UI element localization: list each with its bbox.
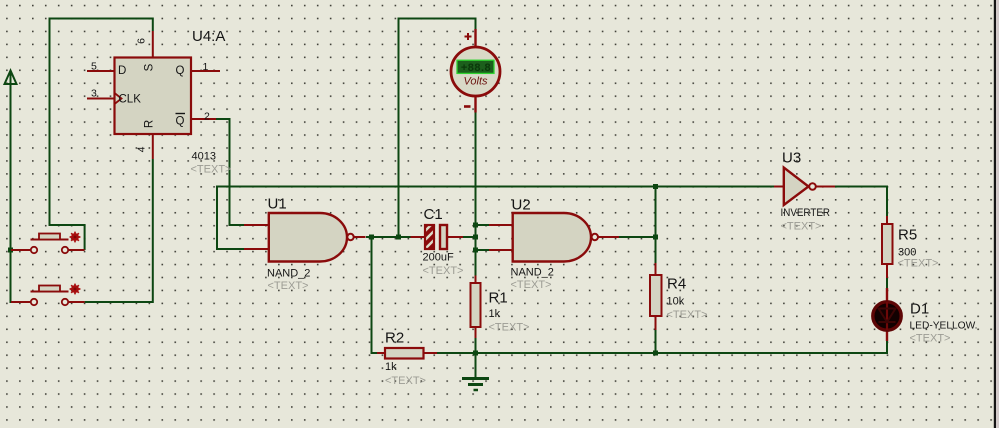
node: button1 left junction: [8, 248, 13, 253]
svg-text:3: 3: [91, 88, 97, 100]
svg-text:CLK: CLK: [119, 94, 142, 106]
pin 3 lead: [87, 98, 115, 100]
wire: S pin loop from U4 top to button1 right: [50, 19, 153, 251]
svg-text:6: 6: [136, 38, 148, 44]
svg-text:200uF: 200uF: [423, 252, 454, 264]
wire: C1 right to rail: [463, 236, 476, 238]
svg-text:LED-YELLOW.: LED-YELLOW.: [910, 320, 978, 332]
resistor R1: [471, 276, 530, 339]
svg-text:<TEXT>: <TEXT>: [781, 221, 822, 233]
wire: R5 to LED: [886, 278, 888, 288]
capacitor C1: [411, 206, 464, 277]
resistor R4: [650, 263, 707, 330]
resistor R2: [377, 329, 437, 387]
svg-text:R1: R1: [489, 290, 508, 307]
svg-text:U2: U2: [512, 197, 531, 214]
wire: voltmeter minus rail down: [475, 113, 477, 276]
pin 1 lead: [191, 70, 220, 72]
svg-text:1: 1: [203, 61, 209, 73]
wire: U1 output to C1: [366, 236, 412, 238]
voltmeter: [451, 29, 500, 113]
node: feedback junction: [653, 184, 658, 189]
svg-text:INVERTER: INVERTER: [781, 207, 831, 219]
svg-text:U4:A: U4:A: [192, 28, 225, 45]
svg-text:D: D: [118, 65, 126, 77]
canvas right border: [994, 0, 996, 428]
svg-text:10k: 10k: [667, 296, 685, 308]
svg-text:<TEXT>: <TEXT>: [898, 257, 939, 269]
node: U2 out junction: [653, 235, 658, 240]
svg-text:R5: R5: [898, 227, 917, 244]
clock triangle: [115, 93, 122, 104]
wire: U4 Q-bar to U1 input1: [216, 119, 244, 225]
button SW2: [11, 284, 85, 306]
node: rail c1: [473, 235, 478, 240]
svg-text:Q: Q: [176, 116, 185, 128]
node: U1 out voltmeter branch: [396, 235, 401, 240]
svg-text:<TEXT>: <TEXT>: [511, 279, 552, 291]
svg-text:5: 5: [91, 61, 97, 73]
node: rail u2in2: [473, 248, 478, 253]
svg-text:2: 2: [204, 111, 210, 123]
svg-text:<TEXT>: <TEXT>: [910, 333, 951, 345]
svg-text:4: 4: [136, 146, 148, 152]
svg-text:<TEXT>: <TEXT>: [489, 322, 530, 334]
svg-text:R2: R2: [385, 329, 404, 346]
resistor R5: [882, 216, 938, 278]
inverter U3: [774, 150, 835, 233]
wire: rail to U2 input2: [476, 249, 490, 251]
LED D1: [873, 288, 978, 345]
svg-text:+88.8: +88.8: [461, 62, 491, 74]
ground: [462, 353, 489, 390]
node: U1 out R2 branch: [369, 235, 374, 240]
wire: U3 output to R5: [835, 187, 887, 217]
svg-text:Volts: Volts: [463, 76, 488, 88]
wire: R2 branch from U1 output node: [372, 237, 378, 353]
svg-text:<TEXT>: <TEXT>: [423, 265, 464, 277]
flip-flop U4:A: [87, 28, 231, 176]
pin 2 lead: [191, 118, 216, 120]
svg-text:S: S: [144, 63, 156, 71]
svg-text:U3: U3: [782, 150, 801, 167]
node: rail u2in1: [473, 223, 478, 228]
wire: feedback net U2 out to U1 input2 and U3 input: [217, 187, 775, 250]
svg-text:<TEXT>: <TEXT>: [191, 164, 232, 176]
wire: voltmeter plus to U1 output node: [399, 19, 476, 238]
svg-text:NAND_2: NAND_2: [511, 267, 554, 279]
svg-text:<TEXT>: <TEXT>: [667, 309, 708, 321]
wire: left rail with arrow terminal: [11, 71, 15, 302]
svg-text:C1: C1: [424, 206, 443, 223]
svg-text:R4: R4: [667, 276, 686, 293]
wire: R1 bottom to ground node: [475, 338, 477, 353]
wire: bottom return net: [437, 341, 887, 353]
wire: button2 right to U4 pin4: [85, 159, 153, 302]
svg-text:<TEXT>: <TEXT>: [385, 375, 426, 387]
svg-text:NAND_2: NAND_2: [267, 268, 310, 280]
button SW1: [11, 232, 85, 254]
svg-text:<TEXT>: <TEXT>: [268, 280, 309, 292]
node: R4 bottom junction: [653, 351, 658, 356]
wire: rail to U2 input1: [476, 224, 490, 226]
node: ground junction: [473, 351, 478, 356]
pin 5 lead: [87, 70, 115, 72]
wire: U2 output to junction and R4: [619, 237, 656, 263]
pin 6 lead: [152, 31, 154, 58]
arrow terminal head: [5, 71, 17, 85]
svg-text:U1: U1: [268, 196, 287, 213]
wire: R4 bottom green: [655, 330, 657, 353]
svg-text:Q: Q: [176, 65, 185, 77]
NAND gate U2: [489, 197, 619, 292]
svg-text:D1: D1: [910, 301, 929, 318]
NAND gate U1: [244, 196, 366, 293]
svg-text:1k: 1k: [489, 308, 501, 320]
wire: branch feedback to U2 output node: [655, 187, 657, 238]
svg-text:4013: 4013: [192, 151, 216, 163]
svg-text:1k: 1k: [385, 361, 397, 373]
svg-text:R: R: [144, 120, 156, 128]
pin 4 lead: [152, 134, 154, 159]
